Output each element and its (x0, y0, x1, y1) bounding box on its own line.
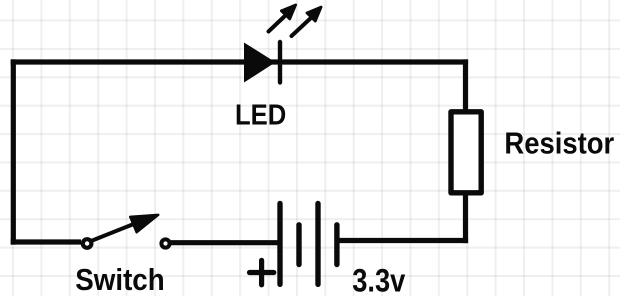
battery BT: negative plate 2 (short, right) (334, 225, 339, 265)
wire: bottom-left to switch (11, 239, 81, 244)
LED light arrow 1 (269, 5, 296, 32)
wire: bottom-right from battery to right vertical (339, 238, 468, 243)
LED light arrow 2 (292, 7, 322, 36)
battery plus sign (250, 260, 274, 285)
svg-text:LED: LED (235, 98, 286, 131)
resistor R (white box over right wire) (451, 112, 481, 193)
battery BT: negative plate (short) (296, 225, 301, 265)
switch lever arrow (91, 215, 158, 241)
wire: right vertical (through resistor) (463, 59, 468, 243)
switch terminal circle right (161, 239, 169, 247)
svg-text:Switch: Switch (75, 263, 164, 296)
wire: top horizontal (LED branch) (11, 59, 468, 64)
battery BT: positive plate (tall, left) (277, 204, 282, 285)
battery BT: positive plate 2 (tall) (315, 204, 320, 285)
svg-text:Resistor: Resistor (504, 127, 614, 161)
LED D: cathode bar (278, 42, 282, 83)
wire: left vertical (11, 59, 16, 244)
LED D: anode triangle (244, 43, 276, 83)
wire: switch right terminal to battery positive (171, 240, 279, 245)
switch terminal circle left (83, 239, 92, 248)
svg-text:3.3v: 3.3v (352, 263, 405, 296)
